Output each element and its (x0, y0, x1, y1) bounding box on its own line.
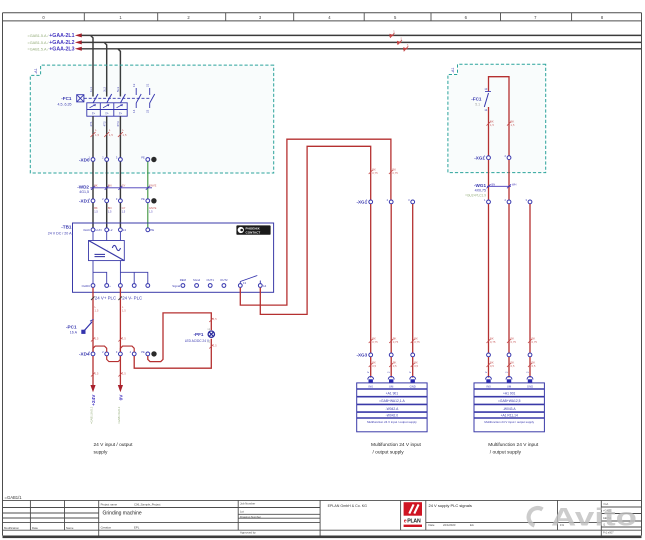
svg-text:1,5: 1,5 (149, 210, 153, 214)
svg-text:-XG3: -XG3 (356, 353, 367, 358)
svg-text:LED AC/DC 24 V: LED AC/DC 24 V (185, 339, 210, 343)
wire L2 drop to breaker (104, 42, 107, 96)
svg-text:IN0: IN0 (369, 384, 374, 388)
svg-text:SGnd: SGnd (193, 278, 201, 282)
svg-text:0,5: 0,5 (414, 364, 418, 368)
EPLAN logo (404, 502, 422, 527)
wire -PC1 to -XD4 (92, 323, 94, 352)
svg-text:13: 13 (132, 83, 136, 87)
terminal -XG3:2 (389, 353, 393, 357)
svg-text:1,5: 1,5 (95, 309, 99, 313)
svg-text:-FC1: -FC1 (61, 96, 72, 101)
svg-text:Avito: Avito (551, 504, 637, 532)
page cross-ref arrows on L1 L2 L3 (390, 34, 409, 51)
svg-text:1,5: 1,5 (94, 210, 98, 214)
cross-section marks on down wires (91, 373, 122, 377)
svg-text:IN0: IN0 (486, 384, 491, 388)
svg-text:=GU2+PLC1.9: =GU2+PLC1.9 (465, 193, 486, 197)
svg-text:-WG1: -WG1 (474, 183, 486, 188)
terminal -XG1:1 (366, 198, 372, 204)
svg-text:Job Number: Job Number (240, 502, 255, 506)
wire L2 -XD0 to -XD1 (106, 162, 108, 199)
svg-text:0,5: 0,5 (490, 364, 494, 368)
wire -XG1:2 right through -WG1 (508, 160, 510, 200)
cross-section labels on output wires (95, 305, 127, 313)
breaker -FC1 thermal trip box symbol (77, 95, 84, 102)
svg-text:0,75: 0,75 (511, 340, 517, 344)
terminal -XD1:1 (88, 197, 94, 203)
terminal -XD1:PE (141, 197, 149, 203)
PE earth dot at -XD4 (151, 351, 156, 356)
enclosure box -A1 (left, dashed) (30, 65, 273, 173)
svg-text:24 V+ PLC: 24 V+ PLC (95, 295, 116, 300)
wire -XG3:1 to plug pin IN0 (370, 357, 372, 378)
breaker -FC1 pole 2 blade (107, 94, 112, 103)
svg-text:-TB1: -TB1 (61, 225, 72, 230)
svg-text:BK: BK (94, 206, 98, 210)
caption Multifunction (left) (371, 442, 422, 456)
-TB1 input terminal L3 (119, 228, 127, 232)
frame column dividers (84, 13, 571, 21)
cross-section marks in right enclosure (487, 122, 512, 126)
terminal -XG1:2 (387, 198, 393, 204)
svg-text:REM: REM (180, 278, 187, 282)
svg-text:+GAA-2L1: +GAA-2L1 (49, 33, 74, 39)
power supply -TB1 body (73, 223, 274, 292)
breaker -FC1 linkage dashed line (84, 97, 150, 99)
svg-text:=GAB1.5.A /: =GAB1.5.A / (27, 47, 49, 51)
terminal -XG3:3 right (528, 353, 532, 357)
plug socket pin UM (right block) (506, 377, 512, 383)
svg-text:-WD2: -WD2 (77, 184, 89, 189)
svg-text:3L2: 3L2 (103, 87, 107, 92)
caption 24 V input / output supply (94, 442, 134, 456)
PE wire (green) -XD0 to -TB1 (147, 162, 149, 228)
PLC block table (left) (357, 383, 427, 432)
svg-text:22/4/2023: 22/4/2023 (443, 523, 456, 527)
wire L3 drop to breaker (118, 49, 121, 97)
cable -WG1 label (465, 183, 486, 198)
svg-text:L3: L3 (123, 228, 127, 232)
svg-text:16 A: 16 A (70, 331, 78, 335)
svg-text:PE: PE (141, 350, 145, 354)
title block bottom row texts (429, 523, 565, 527)
svg-text:0,5: 0,5 (511, 364, 515, 368)
wire L3 -XD1 to -TB1 (119, 203, 121, 228)
interruption point arrow L1 (75, 33, 82, 37)
wire -XG1:1 right through -WG1 (488, 160, 490, 200)
terminal -XD4:1 (88, 350, 94, 356)
svg-text:L1/N: L1/N (96, 228, 102, 232)
svg-text:1,5: 1,5 (108, 210, 112, 214)
svg-text:-W042.A: -W042.A (385, 407, 399, 411)
wire -XG3:3 to plug pin GND (412, 357, 414, 378)
svg-text:1,5: 1,5 (95, 133, 100, 137)
PLC block table (right) (474, 383, 544, 432)
svg-text:4G1,5: 4G1,5 (79, 190, 89, 194)
wire 24V+ below -TB1 (92, 288, 94, 323)
breaker -FC1 pin labels top (1L1 3L2 5L3) (89, 87, 120, 92)
svg-text:BN: BN (492, 183, 496, 187)
plug pin labels (left block) (366, 371, 412, 373)
svg-text:Multifunction 24 V input / out: Multifunction 24 V input / output supply (484, 420, 534, 424)
cable -WD2 conductor color labels (94, 184, 156, 188)
svg-text:Date: Date (32, 526, 38, 530)
wire cross-section marks below breaker (91, 132, 123, 137)
interruption point arrow L2 (75, 40, 82, 44)
svg-text:Modification: Modification (4, 526, 19, 530)
svg-text:+GAA-2L3: +GAA-2L3 (49, 47, 74, 53)
svg-text:/ output supply: / output supply (373, 449, 405, 455)
svg-text:=GAB1.5A/2.2: =GAB1.5A/2.2 (89, 406, 93, 424)
svg-text:=GAB1.5A/2.2: =GAB1.5A/2.2 (117, 406, 121, 424)
svg-text:4T2: 4T2 (103, 121, 107, 127)
svg-text:+A1 R11,14: +A1 R11,14 (501, 414, 518, 418)
svg-text:OutDC: OutDC (82, 284, 91, 288)
motor breaker -FC1 label (58, 96, 72, 106)
svg-text:0,5: 0,5 (393, 364, 397, 368)
cross-section marks on lamp loop (209, 318, 213, 349)
jumper -XD4 2-3 bottom (107, 356, 121, 362)
svg-text:1,5: 1,5 (122, 309, 126, 313)
svg-text:GND: GND (410, 384, 416, 388)
svg-text:EPL: EPL (134, 525, 140, 529)
wire link ticks below TB1 (91, 297, 122, 301)
svg-text:GY: GY (122, 184, 126, 188)
svg-text:GND: GND (527, 384, 533, 388)
plug socket pin IN0 (left block) (368, 377, 374, 383)
right column small refs (603, 502, 614, 535)
svg-text:1,5: 1,5 (122, 337, 126, 341)
source cross-reference labels (green) (27, 34, 49, 51)
svg-text:1L1: 1L1 (89, 87, 93, 92)
svg-text:-FC1: -FC1 (471, 96, 482, 101)
svg-text:OUT2: OUT2 (220, 278, 228, 282)
svg-text:=GAB+WA12,5: =GAB+WA12,5 (498, 399, 521, 403)
svg-text:EPLAN GmbH & Co. KG: EPLAN GmbH & Co. KG (328, 504, 368, 508)
-TB1 signal terminal OUT2 (222, 284, 226, 288)
svg-text:Name: Name (66, 526, 74, 530)
cross-section marks above right -XG3 (487, 339, 533, 343)
svg-text:1,5: 1,5 (109, 133, 114, 137)
terminal row below -WG1: pin 3 (525, 198, 531, 204)
wire -XG3 right 2 to plug pin UM (508, 357, 510, 378)
svg-text:BN: BN (108, 206, 112, 210)
net name labels +GAA-2L1 +GAA-2L2 +GAA-2L3 (49, 33, 74, 52)
plug pin labels (right block) (484, 371, 530, 373)
cable -WD2 label (77, 184, 89, 194)
svg-text:UM: UM (507, 384, 512, 388)
jumper -XD4 3-4 (120, 346, 134, 352)
breaker -FC1 pin labels bottom (2T1 4T2 6T3) (89, 121, 120, 127)
wire L1 -XD0 to -XD1 (92, 162, 94, 199)
conductor labels below -XD1 (94, 206, 156, 214)
svg-text:0,75: 0,75 (393, 340, 399, 344)
svg-text:14: 14 (132, 109, 136, 113)
-TB1 input terminal L1 (91, 228, 101, 232)
svg-text:GY: GY (122, 206, 126, 210)
svg-text:1,5: 1,5 (95, 337, 99, 341)
terminal -XD4:3 (116, 350, 122, 356)
svg-text:I>: I> (92, 111, 95, 115)
terminal -XG1:2 right (504, 154, 510, 160)
terminal row below -WG1: pin 1 (484, 198, 490, 204)
-TB1 output terminal 0V b (132, 284, 136, 288)
PE earth dot at -XD1 (151, 198, 156, 203)
-TB1 output terminal 0V a (119, 284, 123, 288)
breaker -FC1 pole 1 blade (93, 94, 98, 103)
terminal row below -WG1: pin 2 (504, 198, 510, 204)
wire -XG1:1 to -XG3:1 (370, 204, 372, 353)
svg-text:-W043.A: -W043.A (503, 407, 517, 411)
svg-text:=GAB+WA12,1.A: =GAB+WA12,1.A (379, 399, 405, 403)
svg-text:24 V- PLC: 24 V- PLC (122, 295, 142, 300)
svg-text:1,5: 1,5 (122, 210, 126, 214)
svg-text:Multifunction 24 V input / out: Multifunction 24 V input / output supply (367, 420, 417, 424)
svg-text:BN: BN (108, 184, 112, 188)
svg-text:+24V: +24V (91, 394, 97, 406)
svg-text:Multifunction 24 V input: Multifunction 24 V input (488, 442, 539, 448)
svg-text:2T1: 2T1 (89, 121, 93, 127)
-TB1 output terminal 0V c (146, 284, 150, 288)
svg-text:-A1: -A1 (451, 67, 455, 73)
svg-text:6T3: 6T3 (116, 121, 120, 127)
svg-text:=GAB1.5.A /: =GAB1.5.A / (27, 41, 49, 45)
svg-text:EA: EA (470, 523, 474, 527)
svg-text:-A1: -A1 (34, 68, 38, 74)
wire pole3 breaker to -XD0 (119, 116, 121, 157)
svg-text:24 V DC / 20 A: 24 V DC / 20 A (48, 231, 72, 235)
svg-text:24 V input / output: 24 V input / output (94, 442, 134, 448)
svg-text:Lot: Lot (240, 510, 244, 514)
wire right group 1 down to -XG3 right (488, 204, 490, 353)
wire right group 3 down to -XG3 right (529, 204, 531, 353)
svg-text:1,5: 1,5 (511, 123, 515, 127)
svg-text:Drawing Number: Drawing Number (240, 515, 261, 519)
svg-text:0,75: 0,75 (414, 340, 420, 344)
svg-text:-PC1: -PC1 (66, 325, 77, 330)
svg-text:WH: WH (512, 183, 516, 187)
-TB1 PE terminal (146, 228, 154, 232)
svg-text:4,5..6,35: 4,5..6,35 (58, 102, 72, 106)
wire 0V down from -XD4 (119, 356, 121, 385)
wire below contact to -XG1 right (488, 107, 490, 156)
terminal -XD4:4 (130, 350, 136, 356)
wire -XG3:2 to plug pin UM (390, 357, 392, 378)
cable -WG1 conductor ticks (487, 184, 512, 188)
interruption arrow 0V (118, 385, 123, 392)
interruption arrow +24V (90, 385, 95, 392)
svg-text:PE: PE (141, 156, 145, 160)
svg-text:L2: L2 (109, 228, 113, 232)
svg-text:5L3: 5L3 (116, 87, 120, 92)
breaker -FC1 aux contact 21-22 (150, 88, 155, 108)
svg-text:UM: UM (389, 384, 394, 388)
svg-text:-W042.0: -W042.0 (386, 414, 399, 418)
svg-text:0,75: 0,75 (490, 340, 496, 344)
jumper -XD4 1-2 (93, 346, 107, 352)
svg-text:0,75: 0,75 (372, 171, 378, 175)
circuit breaker -PC1 (66, 319, 94, 334)
svg-text:CONTACT: CONTACT (246, 230, 261, 234)
-TB1 output terminal 24V+ b (105, 284, 112, 288)
wire L2 horizontal (81, 41, 641, 43)
enclosure box -A1 (right, dashed) (448, 64, 546, 172)
wire -XG1:2 to -XG3:2 (390, 204, 392, 353)
wire L1 -XD1 to -TB1 (92, 203, 94, 228)
terminal -XD0:PE (141, 156, 149, 162)
svg-text:/ output supply: / output supply (490, 449, 522, 455)
svg-text:24 V supply PLC signals: 24 V supply PLC signals (429, 503, 472, 508)
title block grid (3, 500, 642, 535)
-TB1 internal wires converter to output (93, 261, 148, 284)
svg-text:I>: I> (119, 111, 122, 115)
cross-section marks below -XG3 (369, 363, 415, 367)
cable -WD2 line (90, 187, 152, 189)
wire L3 -XD0 to -XD1 (119, 162, 121, 199)
svg-text:0,75: 0,75 (392, 171, 398, 175)
terminal -XD1:2 (102, 197, 108, 203)
svg-text:=GAB1.5.A /: =GAB1.5.A / (27, 34, 49, 38)
wire L2 -XD1 to -TB1 (106, 203, 108, 228)
svg-text:1,5: 1,5 (213, 317, 217, 321)
wire pole1 breaker to -XD0 (92, 116, 94, 157)
breaker -FC1 pole 3 blade (120, 94, 125, 103)
svg-text:Date: Date (429, 523, 435, 527)
wire +24V down from -XD4 (92, 356, 94, 385)
plug socket pin GND (right block) (527, 377, 533, 383)
svg-text:C06_Sample_Project: C06_Sample_Project (134, 503, 161, 507)
svg-text:PLAN: PLAN (407, 519, 421, 525)
svg-text:Grinding machine: Grinding machine (103, 511, 142, 517)
lamp circuit loop wire (148, 313, 212, 362)
svg-text:0,75: 0,75 (372, 340, 378, 344)
svg-text:BK: BK (94, 184, 98, 188)
svg-text:14: 14 (263, 284, 267, 288)
wire -XG3 right 1 to plug pin IN0 (488, 357, 490, 378)
svg-text:OUT1: OUT1 (206, 278, 214, 282)
red feed wire A: relay 13 to -XG1:2 (240, 139, 391, 305)
terminal -XG3:1 (369, 353, 373, 357)
plug socket pin IN0 (right block) (486, 377, 492, 383)
svg-text:Project name: Project name (101, 503, 118, 507)
wire L3 horizontal (81, 48, 641, 50)
cross-section marks above -XG3 (369, 339, 415, 343)
cable -WD2 conductor ticks (91, 186, 150, 190)
terminal -XG1:3 (408, 198, 414, 204)
svg-text:1,5: 1,5 (213, 344, 217, 348)
wire L1 drop to breaker (91, 35, 94, 96)
Phoenix Contact logo (236, 225, 270, 234)
svg-text:1,5: 1,5 (490, 123, 494, 127)
terminal -XD0:2 (102, 156, 108, 162)
lamp circuit loop return wire (134, 339, 211, 369)
power supply -TB1 label (48, 225, 72, 236)
svg-text:0,5: 0,5 (532, 364, 536, 368)
-TB1 relay contact 13-14 (238, 276, 266, 289)
svg-text:1,5: 1,5 (122, 133, 127, 137)
svg-text:1,5: 1,5 (95, 372, 99, 376)
interruption point arrow L3 (75, 47, 82, 51)
svg-text:4X0,75: 4X0,75 (475, 189, 486, 193)
output labels 24V+ / 24V- PLC (95, 295, 142, 300)
wire L1 horizontal (81, 34, 641, 36)
terminal -XG1:1 right (484, 154, 490, 160)
wire 0V below -TB1 (119, 288, 121, 352)
-TB1 AC/DC converter symbol (89, 241, 125, 261)
wire right group 2 down to -XG3 right (508, 204, 510, 353)
red feed wire B: relay 14 to -XG1:1 (260, 146, 370, 314)
breaker contact -FC1 (right) (471, 87, 491, 112)
svg-text:I>: I> (106, 111, 109, 115)
svg-text:PE: PE (141, 197, 145, 201)
terminal -XD0:3 (116, 156, 122, 162)
terminal -XG3:2 right (507, 353, 511, 357)
-TB1 signal terminal labels (180, 278, 228, 282)
bottom frame thick line (3, 536, 642, 539)
svg-text:+A1 901: +A1 901 (386, 392, 399, 396)
svg-text:0,5: 0,5 (372, 364, 376, 368)
svg-text:0V: 0V (118, 394, 124, 401)
caption Multifunction (right) (488, 442, 539, 456)
svg-text:PE: PE (150, 228, 154, 232)
watermark Avito (529, 504, 637, 532)
svg-text:21: 21 (146, 83, 150, 87)
PE earth dot at -XD0 (151, 157, 156, 162)
cross-section marks on feed wires (369, 170, 393, 174)
cross-section marks near -PC1 (91, 338, 122, 342)
plug socket pin UM (left block) (388, 377, 394, 383)
signal lamp -PF1 (185, 328, 215, 343)
svg-text:GNYE: GNYE (149, 184, 157, 188)
terminal -XG3:1 right (487, 353, 491, 357)
wire -XG3 right 3 to plug pin GND (529, 357, 531, 378)
svg-text:Multifunction 24 V input: Multifunction 24 V input (371, 442, 422, 448)
svg-text:22: 22 (146, 109, 150, 113)
svg-text:+A1 901: +A1 901 (503, 392, 516, 396)
svg-text:+GAA-2L2: +GAA-2L2 (49, 40, 74, 46)
terminal -XD1:3 (116, 197, 122, 203)
terminal -XG3:3 (411, 353, 415, 357)
svg-text:=GAB1/1: =GAB1/1 (5, 495, 23, 500)
-TB1 internal wires input to converter (93, 232, 120, 241)
-TB1 signal terminal SGnd (195, 284, 199, 288)
svg-text:3xAC: 3xAC (83, 228, 90, 232)
cross-section marks below right -XG3 (487, 363, 533, 367)
breaker -FC1 trip unit boxes (87, 103, 127, 116)
svg-text:GNYE: GNYE (149, 206, 157, 210)
svg-text:1,5: 1,5 (122, 372, 126, 376)
breaker -FC1 aux contact 13-14 (136, 88, 141, 108)
svg-text:supply: supply (94, 449, 108, 455)
frame column numbers 0-8 (42, 15, 604, 20)
terminal -XD4:PE (141, 350, 149, 356)
svg-text:Creation: Creation (101, 525, 112, 529)
svg-text:-PF1: -PF1 (194, 332, 204, 337)
svg-text:13: 13 (243, 281, 247, 285)
wire pole2 breaker to -XD0 (106, 116, 108, 157)
red bridge wire in right enclosure (489, 77, 510, 156)
svg-text:Signal: Signal (172, 284, 180, 288)
plug socket pin GND (left block) (410, 377, 416, 383)
svg-text:Approved by: Approved by (240, 531, 256, 535)
-TB1 output terminal 24V+ a (91, 284, 95, 288)
terminal -XD0:1 (88, 156, 94, 162)
terminal -XD4:2 (102, 350, 108, 356)
-TB1 signal terminal OUT1 (208, 284, 212, 288)
-TB1 input terminal L2 (105, 228, 113, 232)
svg-text:5.1: 5.1 (475, 103, 480, 107)
